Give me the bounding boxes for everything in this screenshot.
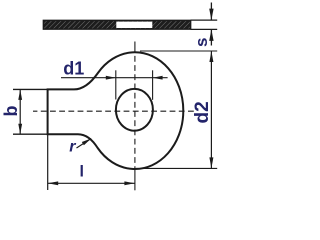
leader line r [77, 139, 92, 149]
washer outline: tab with fillets r merging into outer circle d2 [48, 52, 184, 169]
dimension line d2 [210, 51, 212, 168]
dimension line b [19, 89, 21, 134]
extension line: d2 bottom (circle bottom tangent) [136, 167, 217, 169]
dimension line s (lower part) [210, 29, 212, 45]
extension line: tab bottom edge extended left [13, 133, 49, 135]
extension line: bar bottom edge extended right [191, 28, 218, 30]
arrowhead b bottom [18, 124, 22, 135]
svg-text:l: l [80, 164, 84, 181]
svg-text:d1: d1 [63, 59, 84, 79]
arrowhead d1 right [153, 76, 163, 80]
arrowhead s lower [209, 29, 213, 41]
dimension line d1 [61, 77, 168, 79]
arrowhead l left [48, 181, 59, 185]
centerline vertical (dashed through circle) [134, 53, 136, 171]
arrowhead l right [124, 181, 134, 185]
extension line: tab top edge extended left [13, 88, 49, 90]
centerline vertical (top stub above circle) [134, 42, 136, 53]
svg-text:r: r [69, 138, 76, 155]
arrowhead b top [18, 89, 22, 100]
section view: hatched washer bar (thickness s) [43, 20, 190, 29]
svg-text:b: b [1, 106, 21, 117]
arrowhead d2 bottom [209, 157, 213, 168]
dimension line l [48, 182, 135, 184]
centerline horizontal [33, 110, 194, 112]
arrowhead r leader [82, 139, 91, 146]
extension line: tab left edge extended down [47, 134, 49, 190]
extension line: hole right edge [152, 70, 154, 100]
section view: hole opening (white gap in bar) [116, 22, 152, 28]
hole d1 [116, 89, 153, 131]
arrowhead s upper [209, 9, 213, 21]
extension line: hole left edge [115, 70, 117, 99]
arrowhead d2 top [209, 51, 213, 62]
arrowhead d1 left [106, 76, 116, 80]
svg-text:d2: d2 [192, 101, 213, 123]
svg-text:s: s [192, 38, 211, 47]
dimension line s (upper part) [210, 3, 212, 21]
extension line: bar top edge extended right [191, 19, 218, 21]
centerline vertical (bottom stub, l-dimension extension) [134, 170, 136, 190]
extension line: d2 top (circle top tangent) [140, 50, 217, 52]
